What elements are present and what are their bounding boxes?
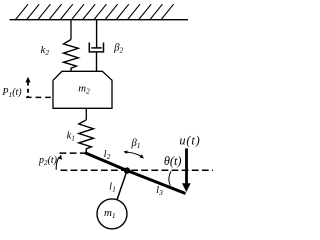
upper dashed reference line p2 — [60, 152, 86, 154]
svg-text:p2(t): p2(t) — [38, 155, 58, 167]
rotation arrow B1 — [124, 152, 141, 156]
damper B2 cup — [89, 43, 103, 52]
displacement arrow p2 — [56, 157, 59, 170]
lower dashed reference line — [61, 169, 214, 171]
ceiling line — [10, 19, 189, 21]
wire ceiling to spring k2 — [70, 20, 72, 40]
mass m1 circle — [97, 199, 127, 229]
input arrow u(t) — [185, 148, 188, 184]
mass m2 — [53, 71, 112, 108]
svg-text:θ(t): θ(t) — [164, 154, 182, 168]
spring k1 — [79, 120, 94, 153]
pendulum rod l1 — [117, 171, 127, 200]
svg-text:u(t): u(t) — [179, 134, 200, 148]
svg-text:P1(t): P1(t) — [1, 87, 22, 99]
damper B2 piston bar — [91, 47, 101, 49]
dashed line P1 to mass — [26, 96, 53, 98]
spring k2 — [64, 40, 79, 72]
force arrow P1 dashed stem — [27, 82, 29, 98]
wire ceiling to damper — [96, 20, 98, 48]
angle arc theta — [169, 171, 171, 185]
ceiling hatching — [15, 4, 173, 20]
force arrow P1 head — [25, 77, 30, 83]
wire mass m2 to spring k1 — [85, 108, 87, 120]
pivot dot — [124, 167, 130, 173]
lever beam — [85, 153, 186, 194]
wire damper to mass m2 — [96, 52, 98, 72]
